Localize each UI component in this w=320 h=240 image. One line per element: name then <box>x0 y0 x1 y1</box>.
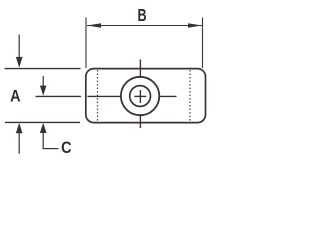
vertical centerline top segment <box>139 60 141 77</box>
label A <box>10 88 20 106</box>
dimension C top arrow shaft <box>42 76 44 87</box>
svg-text:C: C <box>61 139 71 157</box>
svg-text:B: B <box>137 6 146 26</box>
horizontal centerline inside part, left of hole <box>88 95 121 97</box>
dimension C top arrowhead (down) <box>40 86 47 96</box>
dimension B line <box>87 25 202 27</box>
dimension B extension line left <box>85 18 87 69</box>
dimension C bottom arrow shaft <box>42 133 44 149</box>
part top edge extension line (for A) <box>5 68 81 70</box>
svg-text:A: A <box>10 88 20 106</box>
dimension C leader horizontal <box>43 148 59 150</box>
dimension B right arrowhead <box>188 23 202 28</box>
center mark horizontal <box>134 95 146 97</box>
counterbore outer circle <box>121 77 159 115</box>
horizontal centerline right of hole <box>159 95 176 97</box>
dimension A top arrow shaft <box>18 35 20 59</box>
center mark vertical <box>139 90 141 103</box>
part outline (rounded rectangle body) <box>86 69 206 123</box>
vertical centerline bottom segment <box>139 115 141 128</box>
label B <box>137 6 146 26</box>
hole inner circle <box>130 86 151 107</box>
dimension A top arrowhead (down) <box>16 57 23 68</box>
dimension B left arrowhead <box>87 23 101 28</box>
hidden line left (dotted) <box>97 71 99 122</box>
dimension B extension line right <box>202 18 204 69</box>
part bottom edge extension line (for A and C) <box>5 121 80 123</box>
horizontal centerline extension (left, to dimension area) <box>36 95 82 97</box>
dimension C bottom arrowhead (up) <box>40 123 47 133</box>
label C <box>61 139 71 157</box>
hidden line right (dotted) <box>189 71 191 122</box>
dimension A bottom arrowhead (up) <box>16 123 23 134</box>
dimension A bottom arrow shaft <box>18 133 20 154</box>
